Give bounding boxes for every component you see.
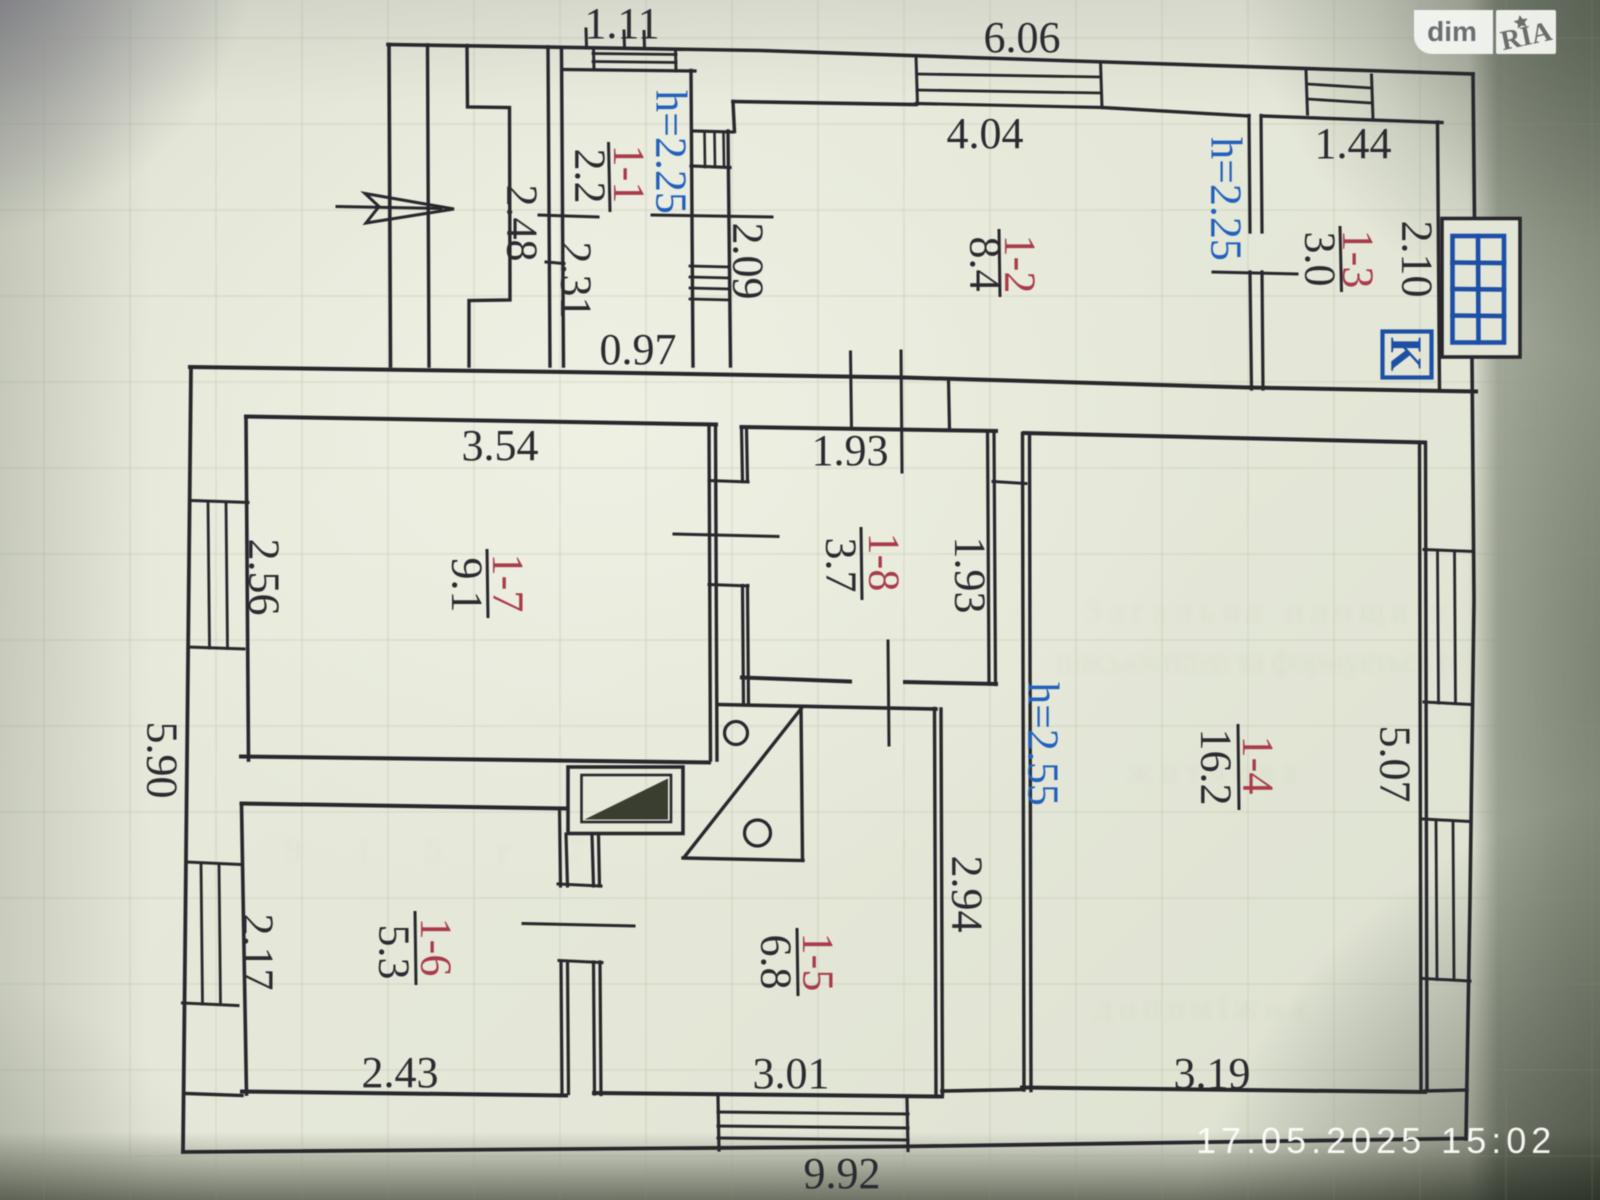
hatch flag: outer box (568, 767, 683, 834)
svg-text:2.94: 2.94 (943, 856, 992, 933)
tick: small mark on left wall y263 (546, 262, 564, 264)
svg-text:h=2.25: h=2.25 (647, 90, 696, 214)
svg-text:3.7: 3.7 (817, 538, 866, 593)
label room 1-2 fraction bar (999, 229, 1000, 297)
svg-text:16.2: 16.2 (1192, 729, 1241, 806)
svg-text:K: K (1382, 337, 1431, 371)
window: top of room 1-1 inner bars (593, 54, 676, 55)
wall: room 1-5 right wall line 2 (941, 709, 943, 1094)
svg-text:2.2: 2.2 (566, 149, 615, 204)
svg-text:8.4: 8.4 (961, 237, 1010, 292)
cellar hatch: hypotenuse (684, 708, 802, 858)
cellar hatch: circle upper (725, 722, 748, 745)
label room 1-6 fraction bar (415, 911, 416, 985)
hatch flag: inner box (582, 775, 672, 822)
wall: room 1-5 left wall line 1 with door gap (592, 835, 595, 1094)
window: 6.06 inner bars (917, 74, 1101, 77)
wall: room 1-8 top (742, 427, 997, 431)
svg-text:6.06: 6.06 (984, 13, 1061, 62)
svg-text:3.0: 3.0 (1296, 232, 1345, 287)
wall: upper block outer left (389, 45, 391, 367)
window: left wall 2.17 caps and bars (186, 862, 242, 865)
wall: 1-2/1-3 wall line 2 with door gap (1261, 116, 1263, 390)
wall: porch inner left (428, 45, 430, 366)
K symbol: blue box (1383, 332, 1432, 378)
wall: room 1-6 bottom (242, 1092, 566, 1096)
svg-text:2.56: 2.56 (240, 539, 289, 616)
svg-text:1.93: 1.93 (812, 426, 889, 475)
label room 1-1 fraction bar (609, 142, 611, 212)
tick: long dim tick y216 across 1-1/1-2 wall (652, 215, 772, 217)
tick: long dim tick y925 (523, 924, 634, 927)
wall: room 1-5 right wall line 1 (935, 709, 937, 1095)
wall: room 1-1 top inner line (564, 70, 695, 72)
label room 1-4 fraction bar (1238, 724, 1239, 810)
label room 1-7 fraction bar (487, 549, 488, 618)
svg-text:dim: dim (1427, 16, 1477, 47)
watermark right box (1496, 10, 1556, 54)
svg-text:1.93: 1.93 (946, 537, 995, 614)
wall: room 1-3 right wall (1438, 122, 1440, 390)
wall: outer right wall upper segment (1473, 74, 1475, 218)
wall: stub x949 between top walls (949, 379, 950, 430)
watermark star (1513, 14, 1530, 30)
wall: room 1-3 top wall (1262, 116, 1442, 123)
entrance steps: sides (718, 1097, 719, 1150)
wall: room 1-5 left wall line 2 with door gap (599, 835, 602, 1095)
svg-text:0.97: 0.97 (600, 325, 677, 374)
wall: room 1-4 right wall line 2 (1426, 443, 1428, 1091)
entrance steps: treads (718, 1112, 908, 1114)
svg-text:3.54: 3.54 (462, 421, 539, 470)
svg-text:и у: и у (1512, 400, 1549, 444)
tick: long dim tick y535 across 1-7/1-8 wall (674, 534, 778, 537)
window: 6.06 right vertical (1101, 62, 1103, 108)
svg-text:6.8: 6.8 (752, 935, 801, 990)
wall: room 1-8 right wall line 2 (994, 432, 996, 685)
svg-text:h=2.55: h=2.55 (1019, 682, 1068, 806)
window: in 1-1/1-2 wall bars (690, 266, 729, 267)
wall: room 1-1 right wall line 2 (728, 131, 731, 366)
window: right wall 5.07 upper caps/bars (1424, 550, 1473, 552)
wall: bottom of 1-5 (594, 1093, 942, 1097)
svg-text:5.3: 5.3 (370, 925, 419, 980)
svg-text:4.04: 4.04 (947, 109, 1024, 158)
svg-text:2.17: 2.17 (234, 914, 283, 991)
svg-text:Загальна площа т: Загальна площа т (1085, 593, 1445, 630)
wall: room 1-6 top (242, 804, 567, 809)
svg-text:9.92: 9.92 (804, 1149, 881, 1198)
svg-text:півськwritten та формується р: півськwritten та формується р (1055, 643, 1455, 680)
window: 1.44 inner bars (1307, 84, 1372, 88)
wall: room 1-4 top (1024, 433, 1425, 443)
svg-text:2.09: 2.09 (724, 223, 773, 300)
svg-text:1-8: 1-8 (860, 533, 909, 592)
svg-text:3.01: 3.01 (753, 1049, 830, 1098)
cellar hatch: triangle bottom (683, 858, 803, 861)
wall: upper block top outline (388, 45, 1473, 75)
svg-text:3.19: 3.19 (1174, 1049, 1251, 1098)
wall: 1-7/1-8 wall line 1 (709, 425, 711, 760)
wall: room 1-4 left wall line 1 (1023, 434, 1025, 1091)
tick: vertical stub x851 between top walls (851, 352, 852, 429)
wall: room 1-1 left wall line 2 (562, 48, 564, 367)
svg-text:2.31: 2.31 (552, 242, 601, 319)
stove: blue grid (1453, 236, 1505, 343)
hatch flag: dark triangle (585, 779, 669, 820)
door caps: 1-6/1-5 doorway (558, 884, 601, 886)
label room 1-5 fraction bar (797, 928, 798, 996)
svg-text:5.07: 5.07 (1371, 726, 1420, 803)
wall: room 1-4 right wall line 1 (1420, 443, 1422, 1091)
svg-text:2.48: 2.48 (498, 185, 547, 262)
window: left wall 2.56 caps and bars (192, 501, 248, 503)
wall: outer right wall below stove (1466, 357, 1474, 1139)
svg-text:5.90: 5.90 (138, 722, 187, 799)
window: 1.44 verticals (1306, 71, 1308, 115)
tick: long dim tick x901 (901, 351, 902, 472)
wall: room 1-8 right wall line 1 (988, 431, 990, 684)
wall: room 1-2 top-left corner stub (733, 102, 735, 132)
wall: room 1-1 right wall line 1 (691, 71, 693, 367)
tick: vertical door tick x888 (888, 641, 889, 745)
svg-text:2.43: 2.43 (362, 1048, 439, 1097)
watermark left box (1414, 10, 1493, 54)
wall: room 1-4 left wall line 2 (1030, 434, 1032, 1091)
svg-text:9.1: 9.1 (443, 558, 492, 613)
wall: room 1-8 left wall line 2 with door gap (747, 428, 749, 705)
svg-text:2.10: 2.10 (1393, 221, 1442, 298)
wall: left bottom connector (185, 1094, 242, 1096)
wall: room 1-8 bottom with door gap (742, 678, 996, 685)
north arrow: head (365, 194, 454, 224)
door caps: 1-7/1-8 doorway (709, 481, 748, 483)
label room 1-3 fraction bar (1340, 226, 1342, 292)
svg-text:1.11: 1.11 (584, 0, 659, 48)
wall: room 1-7 bottom (241, 757, 709, 763)
wall: outer left wall (183, 367, 191, 1152)
window: 6.06 left vertical (916, 56, 918, 104)
wall: corridor bottom (942, 1090, 1022, 1092)
wall: room 1-1 left wall line 1 (548, 47, 550, 366)
wall: 1-7/1-8 wall line 2 (716, 426, 718, 761)
wall: porch niche zigzag (467, 46, 510, 367)
tick: door tick across 1-2/1-3 wall (1213, 272, 1297, 274)
svg-text:1.44: 1.44 (1315, 119, 1392, 168)
cellar hatch: top line of 1-5 (718, 705, 936, 710)
window: small vent between 1-1 and 1-2 top (693, 131, 733, 132)
wall: bottom-right connector (1425, 1090, 1467, 1091)
wall: outer bottom wall (183, 1139, 1465, 1153)
svg-text:допоміжна: допоміжна (1095, 989, 1305, 1026)
wall: room 1-2 top wall left part (733, 102, 916, 105)
wall: room 1-6 left (242, 804, 247, 1094)
label room 1-8 fraction bar (861, 527, 862, 600)
wall: 1-6 right wall line 2 with door gap (566, 834, 569, 1094)
svg-text:h=2.25: h=2.25 (1202, 137, 1251, 261)
wall: 1-2/1-3 wall line 1 with door gap (1249, 116, 1252, 390)
wall: room 1-7 left (246, 417, 249, 760)
svg-text:17.05.2025 15:02: 17.05.2025 15:02 (1196, 1120, 1556, 1161)
wall: main top wall (y~368-391) merging into 1-2/1-3 bottom wall (190, 367, 1476, 392)
tick: above top wall x644 (643, 32, 647, 49)
tick: dim boundary on left wall y216 (539, 215, 598, 217)
door cap: corridor top doorway (993, 482, 1026, 484)
window: 6.06 bottom line (916, 104, 1102, 108)
bleed-through ghost text (285, 400, 1549, 1026)
cellar hatch: circle lower (745, 820, 771, 846)
wall: room 1-7 top (246, 417, 716, 425)
cellar hatch: triangle right vertical (801, 708, 803, 861)
window: right wall 5.07 lower caps/bars (1423, 819, 1471, 822)
svg-text:9 і 5 г 7: 9 і 5 г 7 (285, 833, 585, 870)
wall: 1-6 right wall line 1 with door gap (560, 809, 563, 1094)
wall: room 1-4 bottom (1022, 1088, 1425, 1093)
north arrow: tail (337, 207, 441, 209)
wall: room 1-2 top wall right part (1102, 108, 1249, 117)
wall: room 1-8 left wall line 1 with door gap (742, 428, 744, 706)
stove: black outer box (1442, 219, 1520, 358)
tick: above top wall x624 (623, 31, 627, 48)
window: top of room 1-1 (1.11) verticals (592, 48, 596, 70)
tick: above top wall x586 (585, 29, 589, 46)
